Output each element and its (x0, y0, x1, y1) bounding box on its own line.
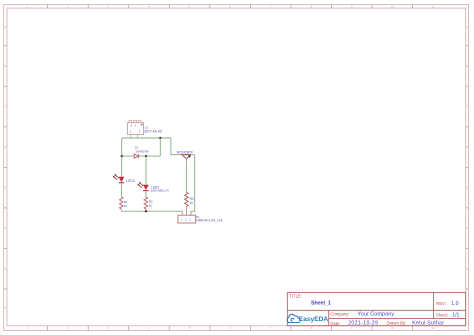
resistor R1 bottom stub (120, 209, 122, 211)
resistor R1 zigzag (120, 197, 124, 209)
svg-text:Company:: Company: (330, 312, 349, 317)
battery U1 clip wedge (140, 124, 143, 126)
svg-text:E: E (5, 186, 7, 190)
title block rev divider (432, 293, 434, 319)
svg-text:BC547BTF: BC547BTF (177, 151, 194, 155)
title block row divider 1 (287, 309, 465, 311)
title block row divider 2 (329, 317, 466, 319)
svg-text:TITLE:: TITLE: (289, 294, 302, 299)
svg-text:LED3: LED3 (126, 179, 134, 183)
header P1 pin stubs (182, 213, 191, 215)
LED3 cathode bar (119, 181, 125, 184)
svg-text:D: D (4, 145, 6, 149)
svg-text:Sheet_1: Sheet_1 (311, 300, 331, 306)
svg-text:B: B (466, 64, 468, 68)
wire left drop from top rail (121, 138, 123, 156)
svg-text:Ketul Suthar: Ketul Suthar (412, 321, 444, 327)
transistor Q1 base bar (181, 154, 191, 156)
header P1 pin numbers (181, 219, 192, 222)
svg-text:B: B (5, 64, 7, 68)
diode D1 symbol (134, 154, 138, 158)
resistor R3 top stub (185, 191, 187, 194)
transistor Q1 right terminal (191, 154, 195, 156)
junction dot diode row LED2 branch (145, 155, 147, 157)
LED2 cathode bar (143, 189, 149, 192)
junction dot diode row left (121, 155, 123, 157)
battery holder U1 body (127, 123, 143, 135)
EasyEDA logo cloud (287, 314, 300, 322)
resistor R3 zigzag (185, 192, 189, 206)
svg-text:1k: 1k (124, 204, 128, 208)
svg-text:Drawn By:: Drawn By: (387, 320, 407, 325)
LED2 emission arrows (138, 183, 143, 188)
svg-text:E: E (466, 186, 468, 190)
transistor Q1 collector lead (185, 159, 187, 165)
wire LED3 column (121, 156, 123, 177)
transistor Q1 collector diagonal (183, 155, 187, 158)
svg-text:1N4007W: 1N4007W (135, 150, 149, 154)
wire diode row left (122, 155, 134, 157)
junction dot bottom rail (145, 210, 147, 212)
wire bottom rail (121, 211, 182, 213)
LED3 triangle (119, 177, 125, 182)
wire LED2 column (145, 156, 147, 185)
title block outer (287, 293, 465, 326)
wire drop from top rail dot to diode row (159, 138, 161, 156)
svg-text:Sheet:: Sheet: (436, 312, 448, 317)
transistor Q1 emitter arrow (188, 155, 191, 158)
svg-text:G: G (466, 267, 468, 271)
svg-text:G: G (4, 267, 6, 271)
svg-text:EasyEDA: EasyEDA (299, 316, 329, 323)
svg-text:C: C (466, 105, 468, 109)
svg-text:H: H (4, 305, 6, 309)
battery holder U1 clips (129, 120, 141, 122)
resistor R2 zigzag (144, 197, 148, 209)
svg-text:A: A (466, 25, 468, 29)
svg-text:HDR-M-2.54_1x3: HDR-M-2.54_1x3 (196, 219, 222, 223)
svg-text:C: C (4, 105, 6, 109)
battery U1 pin stubs (131, 135, 138, 139)
svg-text:Date:: Date: (330, 321, 340, 326)
svg-text:2021-10-29: 2021-10-29 (348, 321, 378, 327)
junction dot top rail (159, 137, 161, 139)
svg-text:1/1: 1/1 (452, 312, 459, 318)
header P1 body (178, 215, 196, 223)
svg-text:-+: -+ (130, 124, 133, 128)
svg-text:D: D (466, 145, 468, 149)
svg-text:BCY-4A-00: BCY-4A-00 (145, 130, 162, 134)
wire LED3 to R1 (120, 183, 122, 197)
svg-text:1.0: 1.0 (451, 301, 458, 307)
wire emitter column (191, 155, 195, 214)
svg-text:+: + (135, 124, 137, 128)
LED2 triangle (143, 185, 149, 190)
svg-text:Your Company: Your Company (357, 311, 394, 317)
wire diode row right (139, 155, 161, 157)
wire top rail (122, 137, 171, 139)
wire LED2 to R2 (145, 191, 147, 197)
transistor Q1 emitter diagonal (187, 155, 191, 158)
LED3 emission arrows (114, 175, 119, 180)
wire transistor to R3 (185, 165, 187, 192)
resistor R2 bottom stub (145, 209, 147, 211)
title block logo divider (328, 310, 330, 325)
svg-text:1k: 1k (190, 201, 194, 205)
resistor R3 bottom lead to header (185, 207, 187, 216)
svg-text:A: A (5, 25, 7, 29)
svg-text:1k: 1k (149, 203, 153, 207)
svg-text:REV:: REV: (436, 301, 446, 306)
battery U1 polarity marks (130, 124, 137, 128)
wire to transistor base corner (171, 138, 181, 155)
svg-text:LED-0603_R: LED-0603_R (151, 189, 170, 193)
